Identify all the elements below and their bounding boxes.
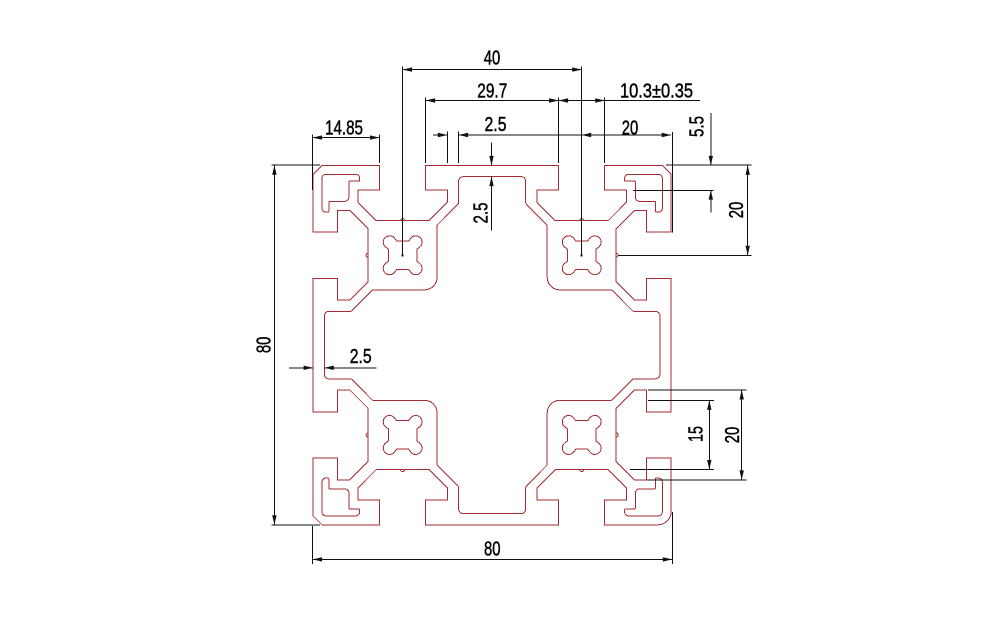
slot centre nub at (67.7,20)	[616, 253, 618, 257]
slot centre nub at (60,12.3)	[580, 219, 584, 221]
dimension 2.5 mid-left: arrows at wall	[289, 367, 313, 369]
svg-text:2.5: 2.5	[485, 114, 507, 136]
corner L-cavity top-right	[625, 174, 663, 212]
dimension 5.5: extension lines	[666, 164, 752, 166]
corner L-cavity bottom-right	[625, 478, 663, 516]
dimension 20 bottom-right: dimension line	[741, 390, 743, 480]
slot centre nub at (20,12.3)	[401, 219, 405, 221]
dimension 14.85: dimension line	[313, 137, 380, 139]
dimension 29.7: dimension line	[426, 100, 559, 102]
profile main outline with 8 T-slot pockets	[313, 165, 671, 524]
slot centre nub at (67.7,60)	[616, 433, 618, 437]
svg-text:2.5: 2.5	[470, 203, 492, 224]
svg-text:2.5: 2.5	[350, 346, 372, 368]
dimension 40: extension line from boss C1 center	[402, 67, 404, 256]
dimension 20 top-right: corner extension line	[671, 132, 673, 232]
svg-text:10.3±0.35: 10.3±0.35	[620, 80, 693, 102]
dimension 80 bottom: dimension line	[313, 558, 673, 560]
dimension 15: extension lines	[648, 399, 714, 401]
svg-text:29.7: 29.7	[477, 81, 507, 103]
dimension 20 right: extension line at boss row	[618, 254, 751, 256]
dimension 80 left: dimension line	[273, 165, 275, 525]
dimension 40: dimension line	[403, 69, 582, 71]
dimension 10.3±0.35: extension line	[604, 98, 606, 164]
slot centre nub at (12.3,20)	[366, 253, 368, 257]
screw flute X-hole in boss C3	[383, 415, 422, 454]
svg-text:14.85: 14.85	[325, 118, 363, 140]
slot centre nub at (20,67.7)	[401, 470, 405, 472]
dimension 20 top-right: shared dimension line	[459, 134, 672, 136]
dimension 15: dimension line	[708, 400, 710, 469]
central plus-shaped cavity	[324, 177, 660, 514]
svg-text:15: 15	[686, 426, 708, 442]
dimension 14.85: extension lines	[312, 135, 314, 190]
svg-text:80: 80	[484, 538, 501, 560]
svg-text:20: 20	[726, 202, 748, 219]
dimension 2.5 vertical: leader above	[491, 143, 493, 166]
dimension 29.7: extension lines	[425, 98, 427, 164]
corner L-cavity top-left	[322, 174, 360, 212]
dimension 40: extension line from boss C2 center	[581, 67, 583, 256]
screw flute X-hole in boss C2	[562, 236, 601, 275]
svg-text:40: 40	[484, 48, 501, 70]
dimension 80 left: extension lines	[271, 164, 320, 166]
dimension 80 bottom: extension lines	[312, 526, 314, 564]
svg-text:20: 20	[722, 427, 744, 444]
slot centre nub at (12.3,60)	[366, 433, 368, 437]
slot centre nub at (60,67.7)	[580, 470, 584, 472]
dimension 5.5: dimension line with outside arrows	[710, 113, 712, 165]
dimension 20 bottom-right: extension lines	[648, 389, 747, 391]
svg-text:80: 80	[254, 337, 276, 354]
svg-text:20: 20	[622, 118, 639, 140]
dimension 40: center dots on bosses	[402, 254, 404, 256]
dimension 2.5 top: extension lines	[446, 132, 448, 164]
screw flute X-hole in boss C1	[383, 236, 422, 275]
dimension 2.5 top: arrows outside	[433, 134, 447, 136]
corner L-cavity bottom-left	[322, 478, 360, 516]
dimension 20 right: dimension line	[747, 165, 749, 255]
dimension 2.5 vertical: arrow at inner wall surface	[489, 177, 493, 187]
dimension 10.3±0.35: dimension line and leader	[559, 100, 700, 102]
screw flute X-hole in boss C4	[562, 415, 601, 454]
svg-text:5.5: 5.5	[687, 116, 709, 137]
